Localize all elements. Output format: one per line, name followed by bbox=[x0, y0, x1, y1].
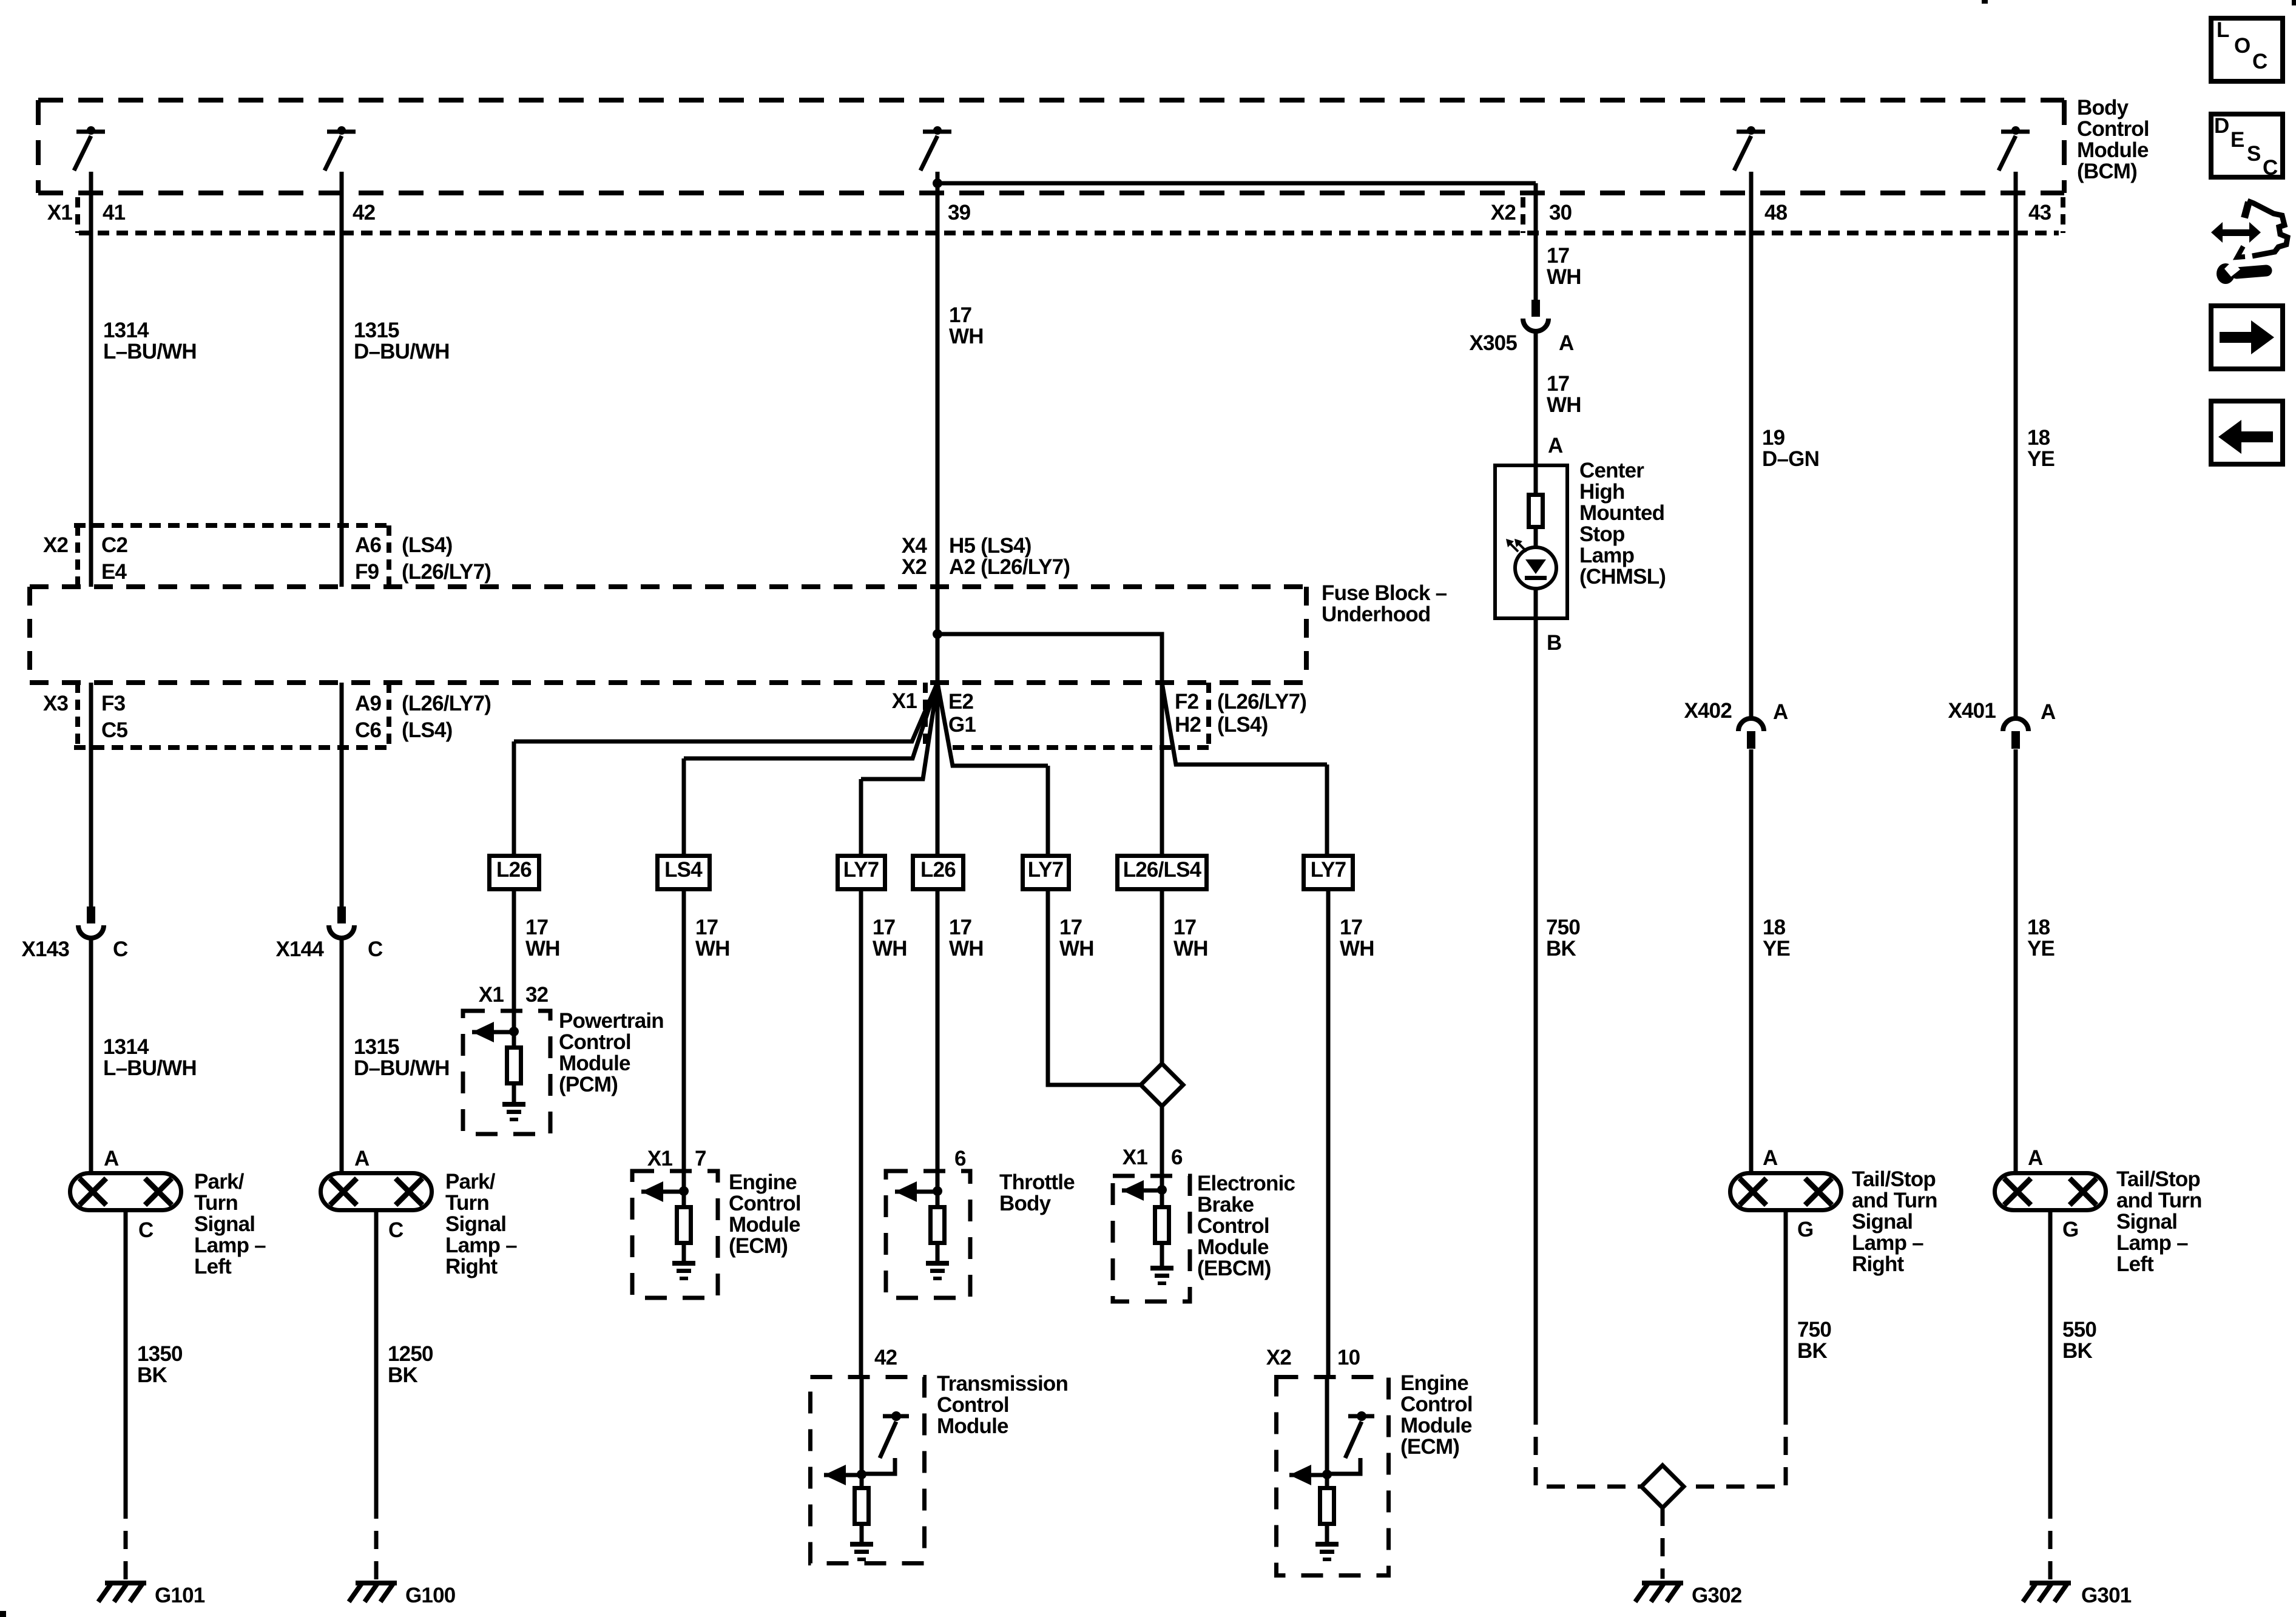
svg-text:X144: X144 bbox=[275, 937, 324, 961]
svg-text:Control: Control bbox=[937, 1393, 1009, 1417]
svg-text:A9: A9 bbox=[355, 692, 381, 715]
svg-text:L26/LS4: L26/LS4 bbox=[1123, 858, 1202, 882]
svg-text:Module: Module bbox=[729, 1213, 800, 1237]
svg-text:WH: WH bbox=[1547, 265, 1581, 289]
svg-text:48: 48 bbox=[1764, 201, 1788, 224]
svg-text:G1: G1 bbox=[948, 713, 976, 737]
svg-text:18: 18 bbox=[2027, 916, 2050, 939]
svg-text:Engine: Engine bbox=[1400, 1371, 1468, 1395]
svg-text:C: C bbox=[368, 937, 383, 961]
svg-text:F2: F2 bbox=[1175, 690, 1199, 714]
svg-text:Left: Left bbox=[194, 1255, 232, 1278]
svg-text:BK: BK bbox=[137, 1363, 167, 1387]
svg-text:7: 7 bbox=[695, 1147, 706, 1170]
svg-text:10: 10 bbox=[1337, 1346, 1360, 1369]
svg-text:Control: Control bbox=[559, 1030, 631, 1054]
svg-text:A: A bbox=[1548, 434, 1563, 457]
svg-text:C6: C6 bbox=[355, 718, 381, 742]
svg-text:42: 42 bbox=[353, 201, 376, 224]
svg-text:Body: Body bbox=[999, 1192, 1052, 1215]
svg-text:Lamp –: Lamp – bbox=[1852, 1231, 1923, 1255]
svg-text:YE: YE bbox=[1763, 937, 1790, 960]
svg-text:LY7: LY7 bbox=[1028, 858, 1064, 882]
svg-text:Powertrain: Powertrain bbox=[559, 1009, 664, 1033]
svg-text:X305: X305 bbox=[1469, 331, 1517, 355]
svg-text:Signal: Signal bbox=[445, 1212, 506, 1236]
svg-text:and Turn: and Turn bbox=[2116, 1189, 2202, 1212]
svg-text:1250: 1250 bbox=[388, 1342, 433, 1366]
svg-text:42: 42 bbox=[874, 1346, 897, 1369]
svg-text:X2: X2 bbox=[1266, 1346, 1292, 1369]
svg-text:17: 17 bbox=[525, 916, 548, 939]
svg-text:X1: X1 bbox=[647, 1147, 673, 1170]
svg-text:BK: BK bbox=[2062, 1339, 2092, 1363]
svg-text:LS4: LS4 bbox=[664, 858, 703, 882]
svg-text:(BCM): (BCM) bbox=[2077, 160, 2137, 183]
svg-text:A: A bbox=[1773, 700, 1788, 724]
svg-text:(EBCM): (EBCM) bbox=[1197, 1257, 1271, 1280]
svg-text:(L26/LY7): (L26/LY7) bbox=[1217, 690, 1306, 714]
svg-text:Signal: Signal bbox=[194, 1212, 255, 1236]
svg-text:(ECM): (ECM) bbox=[1400, 1435, 1459, 1459]
svg-text:1315: 1315 bbox=[354, 1035, 399, 1059]
svg-text:Turn: Turn bbox=[194, 1191, 238, 1215]
svg-text:WH: WH bbox=[1173, 937, 1208, 960]
svg-text:C: C bbox=[388, 1218, 403, 1242]
svg-text:Lamp –: Lamp – bbox=[194, 1234, 266, 1257]
svg-text:D–BU/WH: D–BU/WH bbox=[354, 1056, 450, 1080]
svg-text:32: 32 bbox=[525, 983, 549, 1007]
svg-text:43: 43 bbox=[2028, 201, 2051, 224]
svg-text:X2: X2 bbox=[43, 533, 69, 557]
svg-text:1314: 1314 bbox=[103, 1035, 149, 1059]
svg-text:LY7: LY7 bbox=[843, 858, 879, 882]
svg-text:Module: Module bbox=[1400, 1414, 1472, 1437]
svg-text:X2: X2 bbox=[1491, 201, 1516, 224]
svg-text:Mounted: Mounted bbox=[1579, 501, 1664, 525]
svg-text:Signal: Signal bbox=[2116, 1210, 2177, 1234]
svg-text:D–BU/WH: D–BU/WH bbox=[354, 340, 450, 363]
svg-text:41: 41 bbox=[103, 201, 126, 224]
svg-text:X1: X1 bbox=[47, 201, 73, 224]
svg-text:H2: H2 bbox=[1175, 713, 1201, 737]
svg-text:L–BU/WH: L–BU/WH bbox=[103, 340, 197, 363]
svg-text:G100: G100 bbox=[405, 1584, 456, 1607]
svg-text:(ECM): (ECM) bbox=[729, 1234, 788, 1258]
svg-text:X4: X4 bbox=[902, 534, 928, 558]
svg-text:6: 6 bbox=[954, 1147, 966, 1170]
svg-text:X1: X1 bbox=[892, 689, 917, 713]
svg-text:F9: F9 bbox=[355, 560, 379, 584]
svg-text:G301: G301 bbox=[2081, 1584, 2132, 1607]
svg-text:C5: C5 bbox=[101, 718, 127, 742]
svg-text:Right: Right bbox=[1852, 1252, 1905, 1276]
svg-text:WH: WH bbox=[949, 325, 984, 348]
svg-text:(PCM): (PCM) bbox=[559, 1073, 618, 1096]
svg-text:Tail/Stop: Tail/Stop bbox=[2116, 1167, 2200, 1191]
svg-text:Body: Body bbox=[2077, 96, 2129, 120]
svg-text:X401: X401 bbox=[1948, 699, 1996, 723]
svg-text:Park/: Park/ bbox=[194, 1170, 245, 1193]
svg-text:6: 6 bbox=[1171, 1146, 1183, 1169]
svg-text:WH: WH bbox=[525, 937, 560, 960]
svg-text:E: E bbox=[2230, 128, 2244, 152]
svg-text:(L26/LY7): (L26/LY7) bbox=[402, 692, 491, 715]
svg-text:S: S bbox=[2247, 142, 2261, 166]
svg-text:C2: C2 bbox=[101, 533, 127, 557]
svg-text:17: 17 bbox=[1547, 372, 1569, 396]
svg-text:X3: X3 bbox=[43, 692, 69, 715]
svg-text:17: 17 bbox=[873, 916, 895, 939]
svg-text:Control: Control bbox=[1197, 1214, 1269, 1238]
svg-text:WH: WH bbox=[949, 937, 984, 960]
svg-text:A: A bbox=[104, 1147, 119, 1170]
svg-text:Module: Module bbox=[1197, 1235, 1269, 1259]
svg-text:X1: X1 bbox=[479, 983, 504, 1007]
svg-text:750: 750 bbox=[1797, 1318, 1831, 1342]
svg-text:WH: WH bbox=[1059, 937, 1094, 960]
svg-text:L: L bbox=[2217, 18, 2229, 42]
svg-text:Electronic: Electronic bbox=[1197, 1172, 1295, 1195]
svg-text:Underhood: Underhood bbox=[1322, 603, 1430, 626]
svg-text:YE: YE bbox=[2027, 447, 2055, 471]
svg-text:Engine: Engine bbox=[729, 1170, 797, 1194]
svg-text:Center: Center bbox=[1579, 459, 1644, 482]
svg-text:Lamp –: Lamp – bbox=[445, 1234, 517, 1257]
svg-text:A: A bbox=[1763, 1146, 1778, 1170]
svg-text:BK: BK bbox=[1546, 937, 1576, 960]
svg-text:Tail/Stop: Tail/Stop bbox=[1852, 1167, 1936, 1191]
svg-text:17: 17 bbox=[949, 916, 971, 939]
svg-text:Brake: Brake bbox=[1197, 1193, 1254, 1217]
svg-text:Right: Right bbox=[445, 1255, 498, 1278]
svg-text:1350: 1350 bbox=[137, 1342, 183, 1366]
svg-text:Control: Control bbox=[729, 1192, 801, 1215]
svg-text:C: C bbox=[113, 937, 128, 961]
svg-text:Stop: Stop bbox=[1579, 522, 1625, 546]
svg-text:1315: 1315 bbox=[354, 319, 399, 342]
svg-text:Module: Module bbox=[2077, 138, 2149, 162]
svg-text:A: A bbox=[2028, 1146, 2043, 1170]
svg-text:(CHMSL): (CHMSL) bbox=[1579, 565, 1666, 589]
svg-text:E4: E4 bbox=[101, 560, 127, 584]
svg-text:A6: A6 bbox=[355, 533, 381, 557]
svg-text:X1: X1 bbox=[1123, 1146, 1148, 1169]
svg-text:WH: WH bbox=[695, 937, 730, 960]
svg-text:750: 750 bbox=[1546, 916, 1580, 939]
svg-text:17: 17 bbox=[1340, 916, 1362, 939]
svg-text:Module: Module bbox=[559, 1052, 630, 1075]
svg-text:D: D bbox=[2214, 114, 2229, 138]
svg-text:X2: X2 bbox=[902, 555, 927, 579]
svg-text:and Turn: and Turn bbox=[1852, 1189, 1937, 1212]
svg-text:(LS4): (LS4) bbox=[1217, 713, 1268, 737]
svg-text:G: G bbox=[1797, 1218, 1813, 1241]
svg-text:30: 30 bbox=[1549, 201, 1572, 224]
svg-text:(L26/LY7): (L26/LY7) bbox=[402, 560, 491, 584]
svg-text:Turn: Turn bbox=[445, 1191, 489, 1215]
svg-text:Control: Control bbox=[2077, 117, 2149, 141]
svg-text:C: C bbox=[138, 1218, 154, 1242]
svg-text:LY7: LY7 bbox=[1311, 858, 1346, 882]
svg-text:A2 (L26/LY7): A2 (L26/LY7) bbox=[949, 555, 1070, 579]
svg-text:18: 18 bbox=[2027, 426, 2050, 450]
svg-text:C: C bbox=[2263, 156, 2278, 180]
svg-text:Signal: Signal bbox=[1852, 1210, 1913, 1234]
svg-text:17: 17 bbox=[1059, 916, 1082, 939]
svg-text:C: C bbox=[2252, 50, 2267, 73]
svg-text:17: 17 bbox=[695, 916, 718, 939]
svg-text:17: 17 bbox=[1173, 916, 1196, 939]
svg-text:(LS4): (LS4) bbox=[402, 718, 453, 742]
svg-text:550: 550 bbox=[2062, 1318, 2096, 1342]
svg-text:WH: WH bbox=[1340, 937, 1374, 960]
svg-text:17: 17 bbox=[949, 303, 971, 327]
svg-text:Throttle: Throttle bbox=[999, 1170, 1075, 1194]
svg-text:Lamp –: Lamp – bbox=[2116, 1231, 2188, 1255]
svg-text:B: B bbox=[1547, 631, 1561, 655]
svg-text:L26: L26 bbox=[496, 858, 532, 882]
svg-text:X402: X402 bbox=[1684, 699, 1732, 723]
svg-text:WH: WH bbox=[1547, 393, 1581, 417]
svg-text:39: 39 bbox=[948, 201, 971, 224]
svg-text:(LS4): (LS4) bbox=[402, 533, 453, 557]
svg-text:E2: E2 bbox=[948, 690, 974, 714]
svg-text:D–GN: D–GN bbox=[1762, 447, 1819, 471]
svg-text:A: A bbox=[354, 1147, 370, 1170]
svg-text:O: O bbox=[2234, 34, 2250, 58]
svg-text:High: High bbox=[1579, 480, 1625, 504]
svg-text:Fuse Block –: Fuse Block – bbox=[1322, 581, 1447, 605]
svg-text:Control: Control bbox=[1400, 1393, 1473, 1416]
svg-text:BK: BK bbox=[1797, 1339, 1827, 1363]
svg-text:Transmission: Transmission bbox=[937, 1372, 1068, 1396]
svg-text:X143: X143 bbox=[21, 937, 69, 961]
svg-text:G101: G101 bbox=[155, 1584, 205, 1607]
svg-text:19: 19 bbox=[1762, 426, 1785, 450]
svg-text:H5 (LS4): H5 (LS4) bbox=[949, 534, 1032, 558]
svg-text:17: 17 bbox=[1547, 244, 1569, 268]
svg-text:1314: 1314 bbox=[103, 319, 149, 342]
svg-text:BK: BK bbox=[388, 1363, 417, 1387]
svg-text:18: 18 bbox=[1763, 916, 1786, 939]
svg-text:A: A bbox=[1559, 331, 1574, 355]
svg-text:F3: F3 bbox=[101, 692, 126, 715]
svg-text:G302: G302 bbox=[1692, 1584, 1742, 1607]
svg-text:Module: Module bbox=[937, 1414, 1008, 1438]
svg-text:WH: WH bbox=[873, 937, 907, 960]
svg-text:Park/: Park/ bbox=[445, 1170, 496, 1193]
svg-text:L26: L26 bbox=[920, 858, 956, 882]
svg-text:A: A bbox=[2041, 700, 2056, 724]
svg-text:YE: YE bbox=[2027, 937, 2055, 960]
svg-text:Left: Left bbox=[2116, 1252, 2154, 1276]
svg-text:G: G bbox=[2062, 1218, 2078, 1241]
svg-text:Lamp: Lamp bbox=[1579, 544, 1634, 567]
svg-text:L–BU/WH: L–BU/WH bbox=[103, 1056, 197, 1080]
